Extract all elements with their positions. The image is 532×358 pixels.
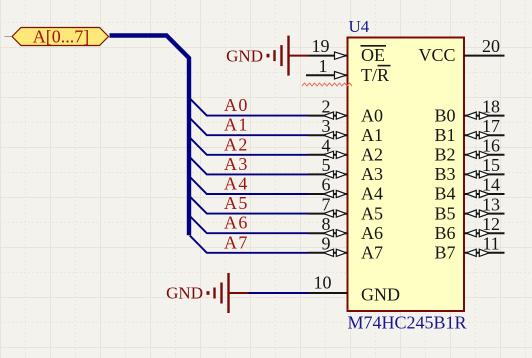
svg-text:A1: A1 <box>361 125 383 145</box>
pin 13 B5 <box>434 194 504 223</box>
pin 12 B6 <box>434 214 504 243</box>
pin 1 T/R <box>306 56 391 85</box>
svg-text:14: 14 <box>482 175 500 195</box>
svg-text:VCC: VCC <box>418 45 455 65</box>
compile-error squiggle under pin 1 <box>302 83 352 86</box>
svg-text:16: 16 <box>482 136 500 156</box>
pin 14 B4 <box>434 175 504 204</box>
svg-text:B1: B1 <box>434 125 455 145</box>
wire GND to pin 10 <box>249 292 309 294</box>
pin 7 A5 <box>309 194 384 223</box>
svg-text:GND: GND <box>361 285 400 305</box>
wire A5 <box>190 196 309 213</box>
pin 19 OE <box>309 36 387 65</box>
svg-text:A0: A0 <box>224 95 249 115</box>
wire A0 <box>190 98 309 115</box>
svg-text:B5: B5 <box>434 203 455 223</box>
svg-text:OE: OE <box>361 45 385 65</box>
svg-text:B7: B7 <box>434 243 455 263</box>
pin 4 A2 <box>309 136 384 165</box>
pin 9 A7 <box>309 234 384 263</box>
pin 5 A3 <box>309 155 384 184</box>
svg-text:A5: A5 <box>224 193 249 213</box>
svg-text:5: 5 <box>322 155 331 175</box>
svg-text:B4: B4 <box>434 184 455 204</box>
pin 2 A0 <box>309 96 384 125</box>
svg-text:GND: GND <box>166 284 203 303</box>
pin 17 B1 <box>434 116 504 145</box>
svg-text:A6: A6 <box>224 213 249 233</box>
svg-text:3: 3 <box>322 116 331 136</box>
svg-text:15: 15 <box>482 155 500 175</box>
svg-text:A5: A5 <box>361 203 383 223</box>
svg-text:A3: A3 <box>361 164 383 184</box>
pin 18 B0 <box>434 96 504 125</box>
svg-text:A2: A2 <box>361 145 383 165</box>
svg-text:1: 1 <box>319 56 328 76</box>
wire A3 <box>190 157 309 174</box>
svg-text:M74HC245B1R: M74HC245B1R <box>348 313 467 333</box>
svg-text:6: 6 <box>322 175 331 195</box>
svg-text:A0: A0 <box>361 105 383 125</box>
wire A1 <box>190 118 309 135</box>
svg-text:T/R: T/R <box>361 65 389 85</box>
pin 10 GND <box>309 273 401 305</box>
pin 3 A1 <box>309 116 384 145</box>
svg-text:10: 10 <box>314 273 332 293</box>
svg-text:20: 20 <box>482 36 500 56</box>
svg-text:2: 2 <box>322 96 331 116</box>
svg-text:A3: A3 <box>224 154 249 174</box>
svg-text:13: 13 <box>482 194 500 214</box>
svg-text:B0: B0 <box>434 105 455 125</box>
svg-text:A4: A4 <box>361 184 383 204</box>
svg-text:18: 18 <box>482 96 500 116</box>
pin 20 VCC <box>418 36 504 65</box>
svg-text:A6: A6 <box>361 223 383 243</box>
svg-text:4: 4 <box>322 136 331 156</box>
pin 11 B7 <box>434 234 504 263</box>
pin 6 A4 <box>309 175 384 204</box>
wire A4 <box>190 177 309 194</box>
svg-text:U4: U4 <box>349 17 370 36</box>
svg-text:A7: A7 <box>361 243 383 263</box>
svg-text:19: 19 <box>312 36 330 56</box>
svg-text:11: 11 <box>482 234 499 254</box>
svg-text:9: 9 <box>322 234 331 254</box>
pin 8 A6 <box>309 214 384 243</box>
svg-text:A2: A2 <box>224 134 249 154</box>
svg-text:A4: A4 <box>224 174 249 194</box>
svg-text:A7: A7 <box>224 232 249 252</box>
svg-text:17: 17 <box>482 116 500 136</box>
port A[0...7] <box>5 27 109 47</box>
svg-text:12: 12 <box>482 214 500 234</box>
op IC U4 body <box>348 38 465 312</box>
svg-text:GND: GND <box>226 46 263 65</box>
bus A[0...7] <box>110 36 190 236</box>
svg-text:7: 7 <box>322 194 331 214</box>
power port GND (top) <box>226 36 308 76</box>
wire A7 <box>190 236 309 253</box>
svg-text:A[0...7]: A[0...7] <box>33 27 90 47</box>
wire A6 <box>190 216 309 233</box>
svg-text:B6: B6 <box>434 223 455 243</box>
pin 16 B2 <box>434 136 504 165</box>
pin 15 B3 <box>434 155 504 184</box>
svg-text:8: 8 <box>322 214 331 234</box>
svg-text:B2: B2 <box>434 145 455 165</box>
power port GND (bottom) <box>166 273 248 313</box>
svg-text:B3: B3 <box>434 164 455 184</box>
wire A2 <box>190 138 309 155</box>
svg-text:A1: A1 <box>224 115 249 135</box>
